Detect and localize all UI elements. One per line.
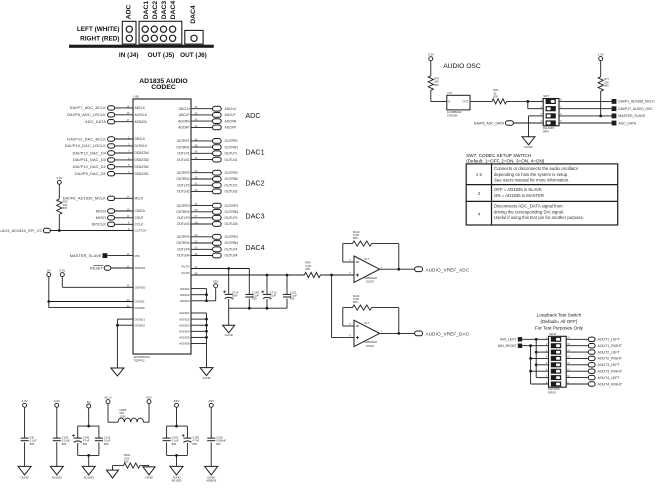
svg-text:OUTRP4: OUTRP4	[177, 235, 190, 239]
svg-text:RIGHT (RED): RIGHT (RED)	[80, 36, 119, 43]
power flag A5V ferrite	[147, 400, 151, 404]
ground AGND AD1835 for C142/C185	[170, 466, 183, 475]
power flag 3.3V for C145	[55, 403, 59, 407]
svg-text:DAI/P12_DAC_D4: DAI/P12_DAC_D4	[73, 151, 106, 155]
capacitor C145 0.01uF	[56, 407, 58, 438]
svg-text:(Default: 1=OFF, 2=ON, 3=ON, 4: (Default: 1=OFF, 2=ON, 3=ON, 4=ON)	[466, 159, 545, 164]
svg-text:DGND2: DGND2	[135, 323, 146, 327]
svg-text:AD8606AR: AD8606AR	[364, 276, 377, 280]
power flag 3.3V for C41	[23, 403, 27, 407]
svg-text:5V: 5V	[47, 268, 51, 272]
svg-text:AOUT3_RIGHT: AOUT3_RIGHT	[598, 370, 623, 374]
svg-text:U36: U36	[134, 95, 140, 99]
svg-text:A5V: A5V	[208, 399, 214, 403]
svg-text:805: 805	[305, 267, 310, 271]
junction FILTR / CT12	[266, 274, 269, 277]
bus AIN_RIGHT even rows	[530, 346, 532, 384]
svg-text:Connects or disconnects the au: Connects or disconnects the audio oscill…	[494, 166, 579, 171]
IC U36 AD1835 body	[133, 99, 191, 354]
wires C146/C162 parallel pair	[88, 408, 90, 426]
svg-text:ADCRN: ADCRN	[225, 119, 237, 123]
output flag AOUT1_LEFT	[566, 338, 588, 340]
svg-text:E: E	[448, 100, 450, 104]
svg-text:3.3V: 3.3V	[56, 176, 62, 180]
wire AIN_RIGHT to SW11	[522, 345, 548, 347]
svg-text:driving the corresponding DAI: driving the corresponding DAI signal.	[494, 209, 564, 214]
svg-text:AD1835: AD1835	[171, 479, 182, 483]
svg-text:DAI/P11_DAC_D3: DAI/P11_DAC_D3	[73, 158, 106, 162]
svg-text:DAI/P6_AD1835_MCLK: DAI/P6_AD1835_MCLK	[63, 197, 107, 201]
power flag 3.3V pullup R25	[57, 180, 61, 184]
svg-text:OUT (J6): OUT (J6)	[180, 52, 207, 59]
svg-text:DAC1: DAC1	[143, 1, 150, 20]
svg-text:AGND3: AGND3	[179, 323, 190, 327]
svg-text:DIP16: DIP16	[548, 391, 556, 395]
svg-text:FLAG3_AD1835_SPI_CS: FLAG3_AD1835_SPI_CS	[0, 229, 42, 233]
wire R76 to oscillator	[430, 90, 432, 101]
wire to SW7 pin2	[527, 101, 529, 108]
node DAI/P17_AUDIO_OSC flag	[559, 108, 612, 110]
SW11 position 5	[551, 362, 561, 367]
svg-text:3.3V: 3.3V	[598, 52, 604, 56]
svg-text:OUTLN1: OUTLN1	[225, 158, 238, 162]
wire SW7 pin3 to ground	[529, 115, 544, 117]
node DAI/P1_AD1835_MCLK flag	[559, 100, 612, 102]
svg-text:ADC_DATA: ADC_DATA	[85, 120, 106, 124]
ground DGND SW7	[522, 137, 535, 145]
capacitor C146 4.7uF	[74, 437, 82, 439]
svg-text:SOIC8: SOIC8	[366, 344, 374, 348]
wire cap ground rail	[229, 307, 287, 309]
svg-text:AOUT1_RIGHT: AOUT1_RIGHT	[598, 344, 623, 348]
capacitor C185 4.7uF	[183, 437, 191, 439]
svg-text:805: 805	[83, 442, 88, 446]
ground AD1835 for C146/C162	[82, 466, 95, 475]
ground DGND below IC left	[111, 368, 124, 376]
svg-text:805: 805	[353, 236, 358, 240]
svg-text:DVDD2: DVDD2	[135, 306, 146, 310]
svg-text:OUTLN4: OUTLN4	[177, 254, 190, 258]
svg-text:SW7: SW7	[543, 94, 550, 98]
junction FILTD / CT14	[227, 267, 230, 270]
output flag AOUT3_RIGHT	[566, 370, 588, 372]
table body	[466, 164, 618, 225]
svg-text:3.3V: 3.3V	[59, 268, 65, 272]
feedback loop U17A with resistor R140	[398, 244, 400, 270]
svg-text:OUTRN1: OUTRN1	[176, 145, 189, 149]
svg-text:OUTLP1: OUTLP1	[225, 152, 238, 156]
svg-text:ABCLK: ABCLK	[135, 106, 146, 110]
svg-text:U17: U17	[364, 257, 370, 261]
SW11 position 3	[551, 350, 561, 355]
svg-text:SW7: CODEC SETUP SWITCH: SW7: CODEC SETUP SWITCH	[466, 153, 531, 158]
svg-text:OUTLN2: OUTLN2	[225, 190, 238, 194]
svg-text:RESET: RESET	[90, 266, 104, 270]
junction FILTR / C191	[286, 274, 289, 277]
svg-text:M/S: M/S	[135, 254, 140, 258]
svg-text:805: 805	[353, 300, 358, 304]
svg-text:805: 805	[62, 442, 67, 446]
svg-text:(Default= All OFF): (Default= All OFF)	[541, 319, 578, 324]
svg-text:OUTRN3: OUTRN3	[225, 210, 239, 214]
svg-text:1-2: 1-2	[476, 172, 483, 177]
svg-text:ALRCLK: ALRCLK	[135, 113, 148, 117]
wire R84 to SW7 pin1	[507, 100, 544, 102]
svg-text:OUTRN3: OUTRN3	[176, 210, 189, 214]
svg-text:OUTLN4: OUTLN4	[225, 254, 238, 258]
capacitor C191 0.1uF	[286, 275, 288, 294]
resistor R76 10K	[428, 76, 433, 91]
svg-text:AGND2: AGND2	[179, 317, 190, 321]
power flag A5V for C142/C185	[175, 403, 179, 407]
svg-text:DGND: DGND	[20, 475, 28, 479]
svg-text:AOUT4_RIGHT: AOUT4_RIGHT	[598, 382, 623, 386]
svg-text:805: 805	[172, 442, 177, 446]
svg-text:CDATA: CDATA	[135, 209, 146, 213]
wire U17B output	[380, 332, 415, 334]
capacitor C162 0.1uF	[95, 437, 103, 439]
svg-text:1206: 1206	[120, 414, 126, 418]
svg-text:ADC: ADC	[125, 4, 132, 19]
svg-text:AGND4: AGND4	[179, 330, 190, 334]
svg-text:ADCRP: ADCRP	[225, 126, 237, 130]
svg-text:OUTRP4: OUTRP4	[225, 235, 239, 239]
svg-text:DAC4: DAC4	[170, 1, 177, 20]
capacitor CT12 10uF	[266, 275, 268, 294]
power flag 3.3V pullup R77	[599, 57, 603, 61]
svg-text:3.3V: 3.3V	[54, 399, 60, 403]
svg-text:MOSI: MOSI	[96, 209, 106, 213]
svg-text:ADCRP: ADCRP	[178, 126, 189, 130]
svg-text:3.3V: 3.3V	[22, 399, 28, 403]
svg-text:CODEC: CODEC	[151, 84, 176, 91]
SW11 position 8	[551, 382, 561, 387]
bus AIN_LEFT odd rows	[535, 339, 537, 377]
svg-text:LEFT (WHITE): LEFT (WHITE)	[77, 26, 120, 33]
svg-text:AIN_RIGHT: AIN_RIGHT	[498, 344, 518, 348]
svg-text:DAC2: DAC2	[152, 1, 159, 20]
wire 5V to DVDD1/DVDD2	[48, 277, 50, 308]
svg-text:OUTRP3: OUTRP3	[225, 204, 239, 208]
svg-text:AGND1: AGND1	[179, 311, 190, 315]
svg-text:ADCLN: ADCLN	[179, 107, 191, 111]
connector J4 jacks	[126, 26, 132, 32]
svg-text:AD8606: AD8606	[206, 479, 217, 483]
svg-text:ASDATA: ASDATA	[135, 120, 148, 124]
svg-text:DAC4: DAC4	[245, 243, 264, 252]
svg-text:DAC2: DAC2	[245, 179, 264, 188]
wire ADC_DATA to SW7 pin4	[513, 122, 543, 124]
svg-text:SPICLK: SPICLK	[92, 223, 107, 227]
capacitor C159 0.068uF	[210, 407, 212, 438]
svg-text:OUTRN4: OUTRN4	[225, 241, 239, 245]
svg-text:Loopback Test Switch: Loopback Test Switch	[537, 312, 582, 317]
junction U17A feedback	[397, 268, 400, 271]
capacitor C41 0.1uF	[24, 407, 26, 438]
svg-text:Useful if using this DAI pin f: Useful if using this DAI pin for another…	[494, 215, 584, 220]
junction MASTER_SLAVE pullup	[599, 115, 602, 118]
SW11 position 7	[551, 375, 561, 380]
SW11 position 2	[551, 343, 561, 348]
svg-text:DSDATA1: DSDATA1	[135, 172, 149, 176]
svg-text:SOIC8: SOIC8	[366, 280, 374, 284]
svg-text:3.3V: 3.3V	[428, 53, 434, 57]
svg-text:U17: U17	[364, 321, 370, 325]
wire CLATCH	[50, 230, 133, 232]
svg-text:COUT: COUT	[135, 216, 144, 220]
svg-text:AD8606AR: AD8606AR	[364, 340, 377, 344]
svg-text:CRO366: CRO366	[447, 114, 458, 118]
output flag AOUT1_RIGHT	[566, 345, 588, 347]
svg-text:TQFP52: TQFP52	[134, 359, 145, 363]
dip switch SW11 SW-DIP8	[549, 336, 567, 387]
svg-text:ADCLP: ADCLP	[179, 113, 190, 117]
svg-text:805: 805	[252, 297, 257, 301]
ground left of R164	[107, 470, 119, 478]
svg-text:ADC_DATA: ADC_DATA	[618, 121, 636, 125]
capacitor C140 0.1uF	[248, 269, 250, 295]
svg-text:SW11: SW11	[549, 332, 557, 336]
ferrite bead FER6 600 1206	[107, 404, 109, 423]
svg-text:DLRCLK: DLRCLK	[135, 144, 148, 148]
power flag 5V for C146/C162	[87, 404, 91, 408]
svg-text:AGND: AGND	[145, 475, 153, 479]
oscillator U37 12.288MHZ	[447, 95, 470, 110]
svg-text:OUTRN2: OUTRN2	[225, 177, 239, 181]
svg-text:AD1835: AD1835	[52, 475, 63, 479]
svg-text:ADCLP: ADCLP	[225, 113, 237, 117]
svg-text:ADC: ADC	[245, 111, 260, 120]
svg-text:805: 805	[104, 442, 109, 446]
svg-text:805: 805	[63, 206, 68, 210]
svg-text:For Test Purposes Only: For Test Purposes Only	[535, 326, 584, 331]
output flag AOUT4_RIGHT	[566, 383, 588, 385]
junction CLATCH/R25	[58, 229, 61, 232]
wire R25 to CLATCH	[58, 214, 60, 230]
ground AGND below IC right	[200, 368, 213, 376]
op-amp U17A AD8606	[354, 256, 380, 282]
svg-text:AGND: AGND	[202, 376, 210, 380]
svg-text:FILTR: FILTR	[181, 271, 190, 275]
ground AGND for C159	[205, 466, 218, 475]
wire FILTD corner down to C140	[248, 268, 250, 270]
power flag 3.3V	[60, 273, 64, 277]
svg-text:OUTLP1: OUTLP1	[177, 152, 190, 156]
svg-text:OUT (J5): OUT (J5)	[148, 52, 175, 59]
svg-text:DGND1: DGND1	[135, 317, 146, 321]
svg-text:DVDD1: DVDD1	[135, 300, 146, 304]
svg-text:DGND: DGND	[524, 145, 532, 149]
output flag AOUT3_LEFT	[566, 364, 588, 366]
svg-text:A5V: A5V	[146, 395, 152, 399]
svg-text:Disconnects ADC_DATA signal fr: Disconnects ADC_DATA signal from	[494, 204, 563, 209]
connector J6 body	[185, 30, 203, 44]
svg-text:DAI/P14_DAC_LRCLK: DAI/P14_DAC_LRCLK	[65, 144, 106, 148]
svg-text:DAI/P1_AD1835_MCLK: DAI/P1_AD1835_MCLK	[618, 100, 655, 104]
svg-text:AGND: AGND	[225, 333, 233, 337]
power flag A5V	[214, 284, 218, 288]
SW7 position 1	[546, 99, 556, 104]
svg-text:OUTRP1: OUTRP1	[177, 139, 190, 143]
SW11 position 6	[551, 369, 561, 374]
svg-text:OUTLP2: OUTLP2	[177, 183, 190, 187]
svg-text:AVDD3: AVDD3	[180, 299, 190, 303]
svg-text:805: 805	[493, 95, 498, 99]
svg-text:OUTLN3: OUTLN3	[177, 222, 190, 226]
svg-text:DAI/P7_ADC_BCLK: DAI/P7_ADC_BCLK	[70, 106, 107, 110]
svg-text:FILTD: FILTD	[181, 265, 190, 269]
ground AD1835 for C145	[50, 466, 63, 475]
svg-text:OUT: OUT	[462, 100, 468, 104]
feedback loop U17B with resistor R141	[398, 308, 400, 334]
svg-text:OUTRP1: OUTRP1	[225, 139, 239, 143]
output flag AOUT4_LEFT	[566, 377, 588, 379]
svg-text:OUTRP2: OUTRP2	[177, 171, 190, 175]
svg-text:AD1835: AD1835	[84, 475, 95, 479]
svg-text:805: 805	[290, 297, 295, 301]
resistor R96 0.0R	[304, 272, 320, 277]
svg-text:5V: 5V	[87, 400, 91, 404]
wire 3.3V to ODVDD	[61, 277, 63, 288]
svg-text:DSDATA4: DSDATA4	[135, 151, 149, 155]
svg-text:AUDIO_VREF_DAC: AUDIO_VREF_DAC	[426, 331, 470, 336]
svg-text:AOUT1_LEFT: AOUT1_LEFT	[598, 338, 621, 342]
svg-text:OUTLP3: OUTLP3	[225, 216, 238, 220]
svg-text:ON = AD1835 is MASTER: ON = AD1835 is MASTER	[494, 193, 544, 198]
svg-text:DAI/P17_AUDIO_OSC: DAI/P17_AUDIO_OSC	[618, 107, 653, 111]
svg-text:OUTLN1: OUTLN1	[177, 158, 190, 162]
svg-text:A5V: A5V	[174, 399, 180, 403]
wire AIN_LEFT to SW11	[522, 338, 548, 340]
node vref junction	[330, 274, 333, 277]
board edge bar	[69, 45, 214, 48]
power flag 5V	[47, 273, 51, 277]
wire R96 to op-amps	[320, 274, 354, 276]
ground DGND for C41	[18, 466, 31, 475]
svg-text:DAC3: DAC3	[161, 1, 168, 20]
output flag AOUT2_RIGHT	[566, 357, 588, 359]
svg-text:AUDIO OSC: AUDIO OSC	[443, 63, 481, 70]
svg-text:DAI/P8_ADC_LRCLK: DAI/P8_ADC_LRCLK	[67, 113, 106, 117]
svg-text:OUTLN3: OUTLN3	[225, 222, 238, 226]
svg-text:IN (J4): IN (J4)	[119, 52, 139, 59]
SW7 position 3	[546, 113, 556, 118]
svg-text:DAC4: DAC4	[190, 5, 197, 24]
svg-text:805: 805	[216, 442, 221, 446]
junction osc to row2	[526, 100, 529, 103]
svg-text:AOUT2_LEFT: AOUT2_LEFT	[598, 350, 621, 354]
wire 3.3V to R25	[58, 184, 60, 199]
wire DGND1/DGND2 bus	[117, 318, 133, 320]
junction DGND2	[116, 324, 119, 327]
svg-text:OUTLP4: OUTLP4	[225, 248, 238, 252]
SW11 position 1	[551, 337, 561, 342]
svg-text:AUDIO_VREF_ADC: AUDIO_VREF_ADC	[426, 267, 470, 272]
svg-text:5V_A: 5V_A	[104, 395, 111, 399]
svg-text:ADCRN: ADCRN	[178, 119, 190, 123]
svg-text:DAI/P10_DAC_D2: DAI/P10_DAC_D2	[73, 165, 106, 169]
svg-text:A5V: A5V	[213, 280, 219, 284]
svg-text:805: 805	[604, 84, 609, 88]
svg-text:OUTLP4: OUTLP4	[177, 248, 190, 252]
svg-text:OUTLP2: OUTLP2	[225, 183, 238, 187]
node MASTER_SLAVE flag	[559, 115, 612, 117]
svg-text:U37: U37	[447, 91, 453, 95]
output flag AOUT2_LEFT	[566, 351, 588, 353]
svg-text:See users manual for more info: See users manual for more information.	[494, 178, 569, 183]
power flag A5V for C159	[209, 403, 213, 407]
svg-text:MCLK: MCLK	[135, 197, 145, 201]
SW7 position 2	[546, 106, 556, 111]
svg-text:DAI/P13_DAC_BCLK: DAI/P13_DAC_BCLK	[67, 137, 106, 141]
svg-text:AGND5: AGND5	[179, 336, 190, 340]
svg-text:AOUT3_LEFT: AOUT3_LEFT	[598, 363, 621, 367]
resistor R84 33	[492, 99, 507, 104]
capacitor CT14 10uF	[228, 269, 230, 295]
wire U17A output	[380, 268, 415, 270]
wire oscillator out to R84	[470, 100, 492, 102]
svg-text:DAI/P6_ADC_DATA: DAI/P6_ADC_DATA	[474, 121, 505, 125]
svg-text:ADCLN: ADCLN	[225, 107, 237, 111]
wire rail to AGND	[228, 308, 230, 325]
svg-text:805: 805	[30, 442, 35, 446]
SW7 position 4	[546, 120, 556, 125]
output flag AUDIO_VREF_ADC	[415, 267, 423, 272]
svg-text:AVDD1: AVDD1	[180, 287, 190, 291]
wire R77 to MASTER_SLAVE	[600, 91, 602, 116]
node ADC_DATA flag	[559, 122, 612, 124]
svg-text:DSDATA3: DSDATA3	[135, 158, 149, 162]
svg-text:MISO: MISO	[96, 216, 106, 220]
svg-text:OUTLN2: OUTLN2	[177, 190, 190, 194]
wire 3.3V to R76	[430, 61, 432, 76]
svg-text:DBCLK: DBCLK	[135, 137, 147, 141]
power flag 5V_A	[106, 400, 110, 404]
svg-text:805: 805	[434, 83, 439, 87]
svg-text:B: B	[270, 297, 272, 301]
output flag AUDIO_VREF_DAC	[415, 331, 423, 336]
svg-text:OUTRN4: OUTRN4	[176, 241, 189, 245]
svg-text:ODVDD: ODVDD	[135, 286, 147, 290]
svg-text:CCLK: CCLK	[135, 223, 144, 227]
svg-text:AOUT2_RIGHT: AOUT2_RIGHT	[598, 357, 623, 361]
svg-text:AIN_LEFT: AIN_LEFT	[500, 338, 517, 342]
svg-text:OUTRN2: OUTRN2	[176, 177, 189, 181]
svg-text:OUTRP2: OUTRP2	[225, 171, 239, 175]
svg-text:805: 805	[192, 442, 197, 446]
connector J5 body	[139, 21, 182, 44]
svg-text:depending on how the system is: depending on how the system is setup.	[494, 172, 568, 177]
svg-text:AOUT4_LEFT: AOUT4_LEFT	[598, 376, 621, 380]
ground AGND filter caps	[223, 325, 235, 333]
svg-text:AVDD2: AVDD2	[180, 293, 190, 297]
svg-text:MASTER_SLAVE: MASTER_SLAVE	[618, 114, 645, 118]
svg-text:OFF = AD1835 is SLAVE: OFF = AD1835 is SLAVE	[494, 187, 542, 192]
connector J6 jack	[191, 35, 197, 41]
svg-text:OUTRN1: OUTRN1	[225, 145, 239, 149]
svg-text:DIP8: DIP8	[543, 130, 550, 134]
svg-text:CLATCH: CLATCH	[135, 229, 147, 233]
capacitor C142 0.1uF	[163, 437, 171, 439]
resistor R77 10K	[598, 77, 603, 92]
svg-text:AGND6: AGND6	[179, 342, 190, 346]
connector J4 body	[122, 21, 136, 44]
svg-text:OUTRP3: OUTRP3	[177, 204, 190, 208]
svg-text:MASTER_SLAVE: MASTER_SLAVE	[70, 254, 102, 258]
svg-text:OUTLP3: OUTLP3	[177, 216, 190, 220]
op-amp U17B AD8606	[354, 320, 380, 346]
resistor R25 10K	[57, 199, 62, 215]
